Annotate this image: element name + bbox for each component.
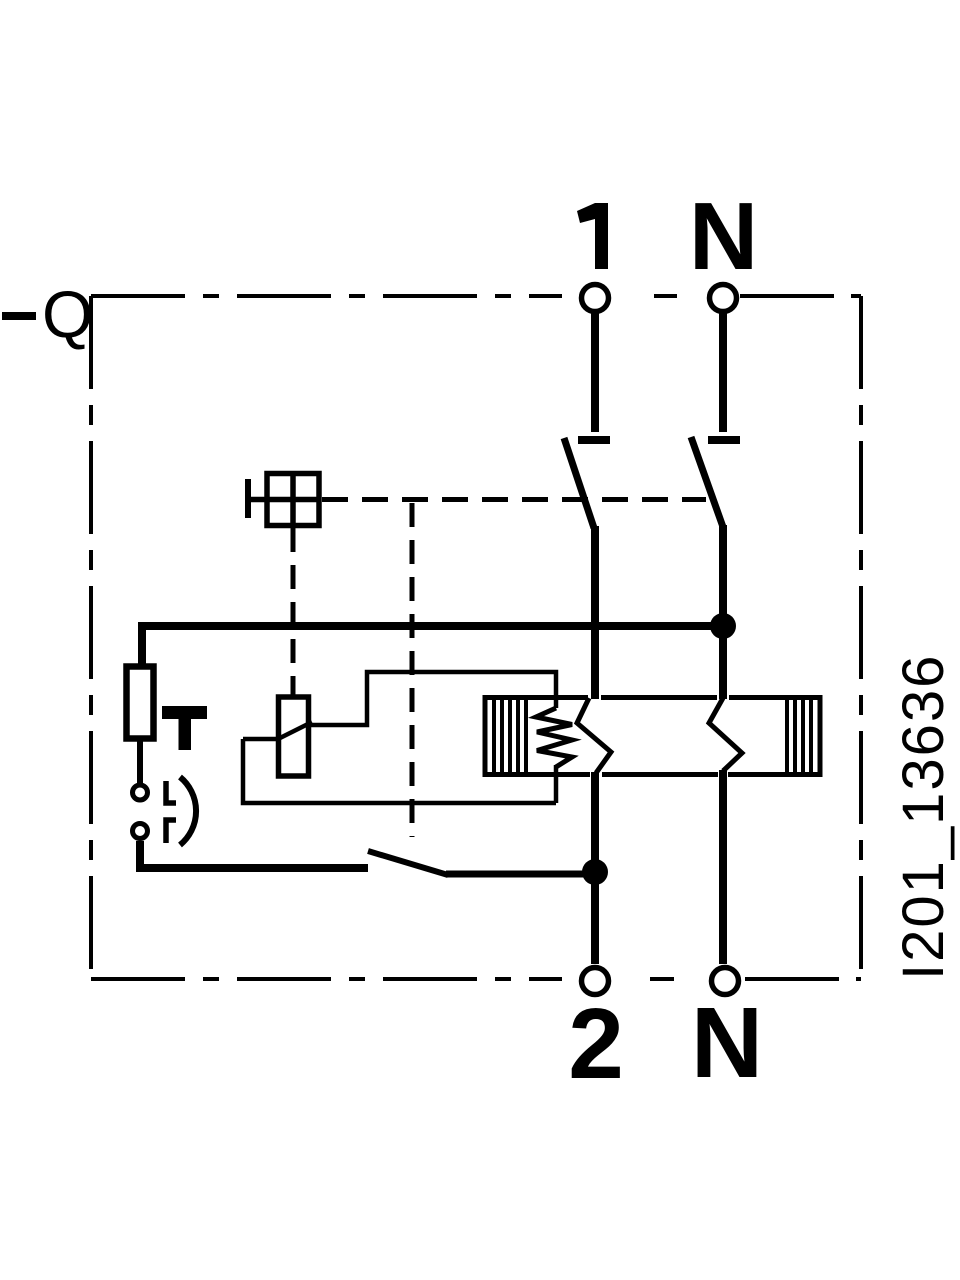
- terminal circle 1 top: [582, 285, 609, 312]
- push button stem upper: [166, 781, 176, 803]
- wire: pole N lower conductor: [719, 770, 727, 964]
- push button cap: [180, 777, 196, 845]
- wire: relay left lead: [243, 737, 281, 742]
- CT right hatching: [787, 697, 811, 775]
- label 1 (top terminal): [577, 203, 608, 269]
- CT primary chevron pole 1: [577, 698, 611, 773]
- trip relay armature diagonal: [276, 722, 312, 740]
- wire: contact to aux wire: [140, 841, 368, 868]
- wire: relay left down and to winding bottom: [243, 739, 556, 803]
- enclosure border bottom: [91, 977, 861, 981]
- svg-text:N: N: [689, 183, 758, 290]
- wire: resistor to contact: [137, 739, 143, 783]
- mechanical linkage dashed horizontal: [322, 497, 706, 502]
- wire: pole N upper conductor: [719, 313, 727, 432]
- wire: aux switch to junction on pole 1: [446, 871, 595, 878]
- test resistor: [127, 667, 154, 739]
- contact bar pole N: [708, 436, 740, 444]
- contact bar pole 1: [578, 436, 610, 444]
- terminal circle N top: [710, 285, 737, 312]
- svg-text:2: 2: [568, 988, 624, 1100]
- mechanical linkage dashed vertical to trip relay: [291, 528, 296, 696]
- wire: pole N mid conductor: [719, 525, 727, 699]
- terminal circle N bottom: [712, 968, 739, 995]
- wire: test circuit top (to N junction): [142, 626, 723, 666]
- CT core outline top: [485, 695, 820, 700]
- CT core left edge: [483, 695, 488, 777]
- CT secondary winding zigzag: [536, 708, 572, 767]
- CT left hatching: [494, 697, 526, 775]
- push button stem lower: [166, 820, 176, 843]
- svg-text:Q: Q: [42, 277, 93, 351]
- switch blade pole 1: [564, 438, 594, 528]
- test button square: [248, 474, 320, 526]
- wire: pole 1 upper conductor: [591, 313, 599, 432]
- junction dot on pole 1: [582, 859, 608, 885]
- junction dot on N: [710, 613, 736, 639]
- enclosure border right: [859, 296, 863, 979]
- test button linkage tick: [245, 479, 251, 518]
- device designator -Q dash: [2, 312, 36, 320]
- wire: pole 1 mid conductor: [591, 526, 599, 699]
- wire: winding bottom lead: [554, 765, 559, 803]
- label T: [162, 706, 207, 750]
- CT primary chevron pole N: [709, 698, 742, 771]
- CT core outline bottom: [485, 772, 820, 777]
- wire: pole 1 lower conductor: [591, 772, 599, 964]
- svg-text:N: N: [691, 987, 763, 1099]
- svg-text:I201_13636: I201_13636: [891, 654, 956, 980]
- test contact upper circle: [133, 785, 148, 800]
- trip relay coil: [279, 697, 309, 776]
- mechanical linkage dashed vertical to aux switch: [410, 503, 415, 837]
- wire: relay right lead step up to winding top: [310, 672, 556, 725]
- enclosure border top: [91, 294, 861, 298]
- enclosure border left: [89, 296, 93, 979]
- CT core right edge: [818, 695, 823, 777]
- switch blade pole N: [691, 437, 723, 527]
- terminal circle 2 bottom: [582, 968, 609, 995]
- aux switch blade: [368, 851, 448, 875]
- test contact lower circle: [133, 824, 148, 839]
